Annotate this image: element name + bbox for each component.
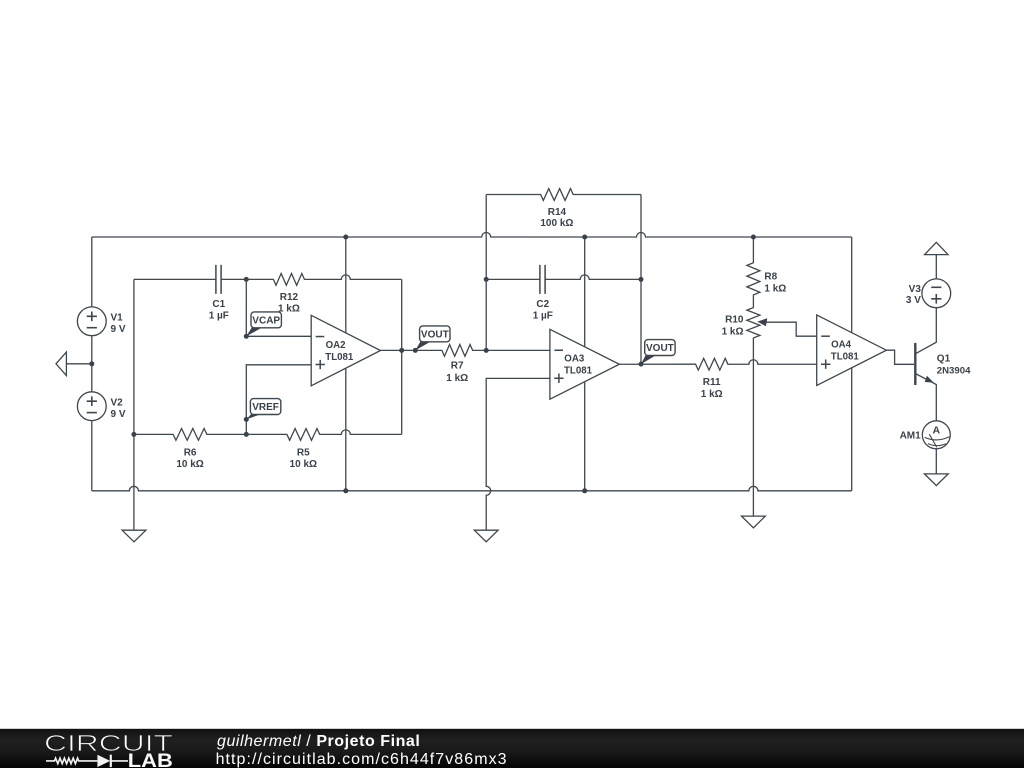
net flag VOUT (OA2) xyxy=(413,326,450,353)
resistor R7 / OA2 output wire xyxy=(381,345,550,357)
svg-text:3 V: 3 V xyxy=(906,295,921,306)
voltage source V1 xyxy=(77,307,106,336)
wire: OA3 non-inverting input to ground xyxy=(486,378,550,530)
resistor R12 xyxy=(246,274,401,286)
ground (left, rotated) xyxy=(56,352,66,375)
wire: C1 to R12 node xyxy=(221,278,246,280)
junction: OA2 output/feedback xyxy=(399,348,404,353)
svg-text:R5: R5 xyxy=(297,447,310,458)
wire: OA3 V+ power xyxy=(584,237,586,347)
svg-text:1 kΩ: 1 kΩ xyxy=(446,373,468,384)
svg-text:9 V: 9 V xyxy=(111,324,126,335)
svg-text:R6: R6 xyxy=(184,447,197,458)
wire: OA4 V+ power xyxy=(851,237,853,333)
wire: V1 top lead xyxy=(91,237,93,307)
resistor R6 xyxy=(134,429,246,441)
svg-text:C2: C2 xyxy=(536,299,549,310)
wire: -V bottom rail xyxy=(92,486,852,491)
junction: rail/OA2 V+ xyxy=(343,235,348,240)
net flag VREF xyxy=(244,399,281,422)
svg-text:OA3: OA3 xyxy=(564,354,585,365)
wire: V2 bottom lead xyxy=(91,420,93,490)
ammeter AM1 xyxy=(922,421,950,449)
wire: OA2 V- power xyxy=(345,368,347,491)
wire: OA2 feedback vertical xyxy=(401,279,403,434)
ground (middle) xyxy=(474,530,498,542)
svg-text:10 kΩ: 10 kΩ xyxy=(176,459,203,470)
svg-text:R8: R8 xyxy=(764,272,777,283)
svg-text:TL081: TL081 xyxy=(325,352,354,363)
ground (AM1) xyxy=(924,474,948,486)
junction: rail/R8 top xyxy=(751,235,756,240)
wire: OA4 output to Q1 base xyxy=(886,350,914,364)
op-amp OA4 xyxy=(817,315,887,386)
svg-text:http://circuitlab.com/c6h44f7v: http://circuitlab.com/c6h44f7v86mx3 xyxy=(216,751,508,768)
svg-text:VREF: VREF xyxy=(252,402,279,413)
svg-text:LAB: LAB xyxy=(128,750,173,768)
svg-text:V3: V3 xyxy=(909,284,922,295)
svg-text:1 µF: 1 µF xyxy=(533,310,553,321)
wire: supply symbol to V3 xyxy=(935,255,937,280)
wire: OA2 non-inverting input / VREF drop xyxy=(246,365,311,435)
svg-text:OA2: OA2 xyxy=(326,340,346,351)
svg-text:TL081: TL081 xyxy=(564,365,593,376)
junction: R6/R5/VREF node xyxy=(244,432,249,437)
svg-text:VOUT: VOUT xyxy=(646,343,674,354)
svg-text:AM1: AM1 xyxy=(900,430,922,441)
junction: supply midpoint xyxy=(89,361,94,366)
svg-text:OA4: OA4 xyxy=(831,340,852,351)
svg-text:Q1: Q1 xyxy=(937,354,951,365)
wire: AM1 to ground xyxy=(935,449,937,474)
svg-text:R12: R12 xyxy=(280,292,299,303)
svg-text:1 kΩ: 1 kΩ xyxy=(764,284,786,295)
svg-text:VCAP: VCAP xyxy=(252,316,280,327)
op-amp OA2 xyxy=(311,315,380,386)
capacitor C1 xyxy=(216,265,221,294)
svg-text:V2: V2 xyxy=(111,398,124,409)
svg-text:V1: V1 xyxy=(111,313,124,324)
svg-text:R11: R11 xyxy=(703,377,721,388)
svg-text:10 kΩ: 10 kΩ xyxy=(290,459,317,470)
svg-text:2N3904: 2N3904 xyxy=(937,365,971,376)
svg-text:R7: R7 xyxy=(451,361,464,372)
wire: OA3 V- power xyxy=(584,382,586,491)
potentiometer R10 wiper arrow xyxy=(757,318,816,336)
wire: OA4 V- power xyxy=(851,368,853,491)
CircuitLab logo: resistor-diode glyph xyxy=(46,758,128,764)
net flag VCAP xyxy=(244,312,282,339)
resistor R11 / OA3 output wire xyxy=(619,358,816,370)
junction: rail/OA2 V- xyxy=(343,488,348,493)
junction: C2 right node xyxy=(639,277,644,282)
+V supply symbol xyxy=(925,242,948,254)
wire: C1 left lead xyxy=(134,278,216,280)
junction: R7/C2/R14 left node xyxy=(484,348,489,353)
junction: rail/OA3 V+ xyxy=(582,235,587,240)
net flag VOUT (OA3) xyxy=(639,340,676,367)
svg-text:A: A xyxy=(933,425,941,437)
resistor R14 xyxy=(486,189,641,201)
svg-text:9 V: 9 V xyxy=(111,409,126,420)
ground (bottom left) xyxy=(122,530,146,542)
wire: C2 right lead xyxy=(545,275,641,280)
resistor R5 xyxy=(246,429,401,441)
svg-text:C1: C1 xyxy=(212,299,225,310)
wire: R14 left vertical xyxy=(485,195,487,351)
junction: rail/OA3 V- xyxy=(582,488,587,493)
svg-text:TL081: TL081 xyxy=(831,351,860,362)
svg-text:1 µF: 1 µF xyxy=(209,310,229,321)
junction: R6 left node xyxy=(131,432,136,437)
svg-text:VOUT: VOUT xyxy=(421,330,449,341)
wire: VCAP drop / OA2 inverting input xyxy=(246,279,311,336)
svg-text:R14: R14 xyxy=(548,207,567,218)
svg-text:1 kΩ: 1 kΩ xyxy=(701,389,723,400)
ground (divider) xyxy=(742,516,766,528)
wire: OA2 V+ power xyxy=(345,237,347,333)
resistor R8 + potentiometer R10 chain xyxy=(747,237,760,516)
svg-text:R10: R10 xyxy=(725,315,744,326)
junction: C1/R12/VCAP node xyxy=(244,277,249,282)
wire: ground drop to C1/R6 node xyxy=(133,279,135,530)
junction: C2 left node xyxy=(484,277,489,282)
transistor Q1 xyxy=(915,308,936,421)
voltage source V2 xyxy=(77,392,106,421)
svg-text:100 kΩ: 100 kΩ xyxy=(540,218,573,229)
wire: +V top rail xyxy=(92,233,852,238)
op-amp OA3 xyxy=(550,329,620,399)
svg-text:guilhermetl / Projeto Final: guilhermetl / Projeto Final xyxy=(217,733,420,750)
wire: C2 left lead xyxy=(486,278,540,280)
wire: ground stub xyxy=(66,363,91,365)
wire: R14 right vertical xyxy=(640,195,642,365)
voltage source V3 xyxy=(922,279,951,308)
wire: V1- to V2+ xyxy=(91,336,93,393)
svg-text:1 kΩ: 1 kΩ xyxy=(722,326,744,337)
capacitor C2 xyxy=(540,265,545,294)
